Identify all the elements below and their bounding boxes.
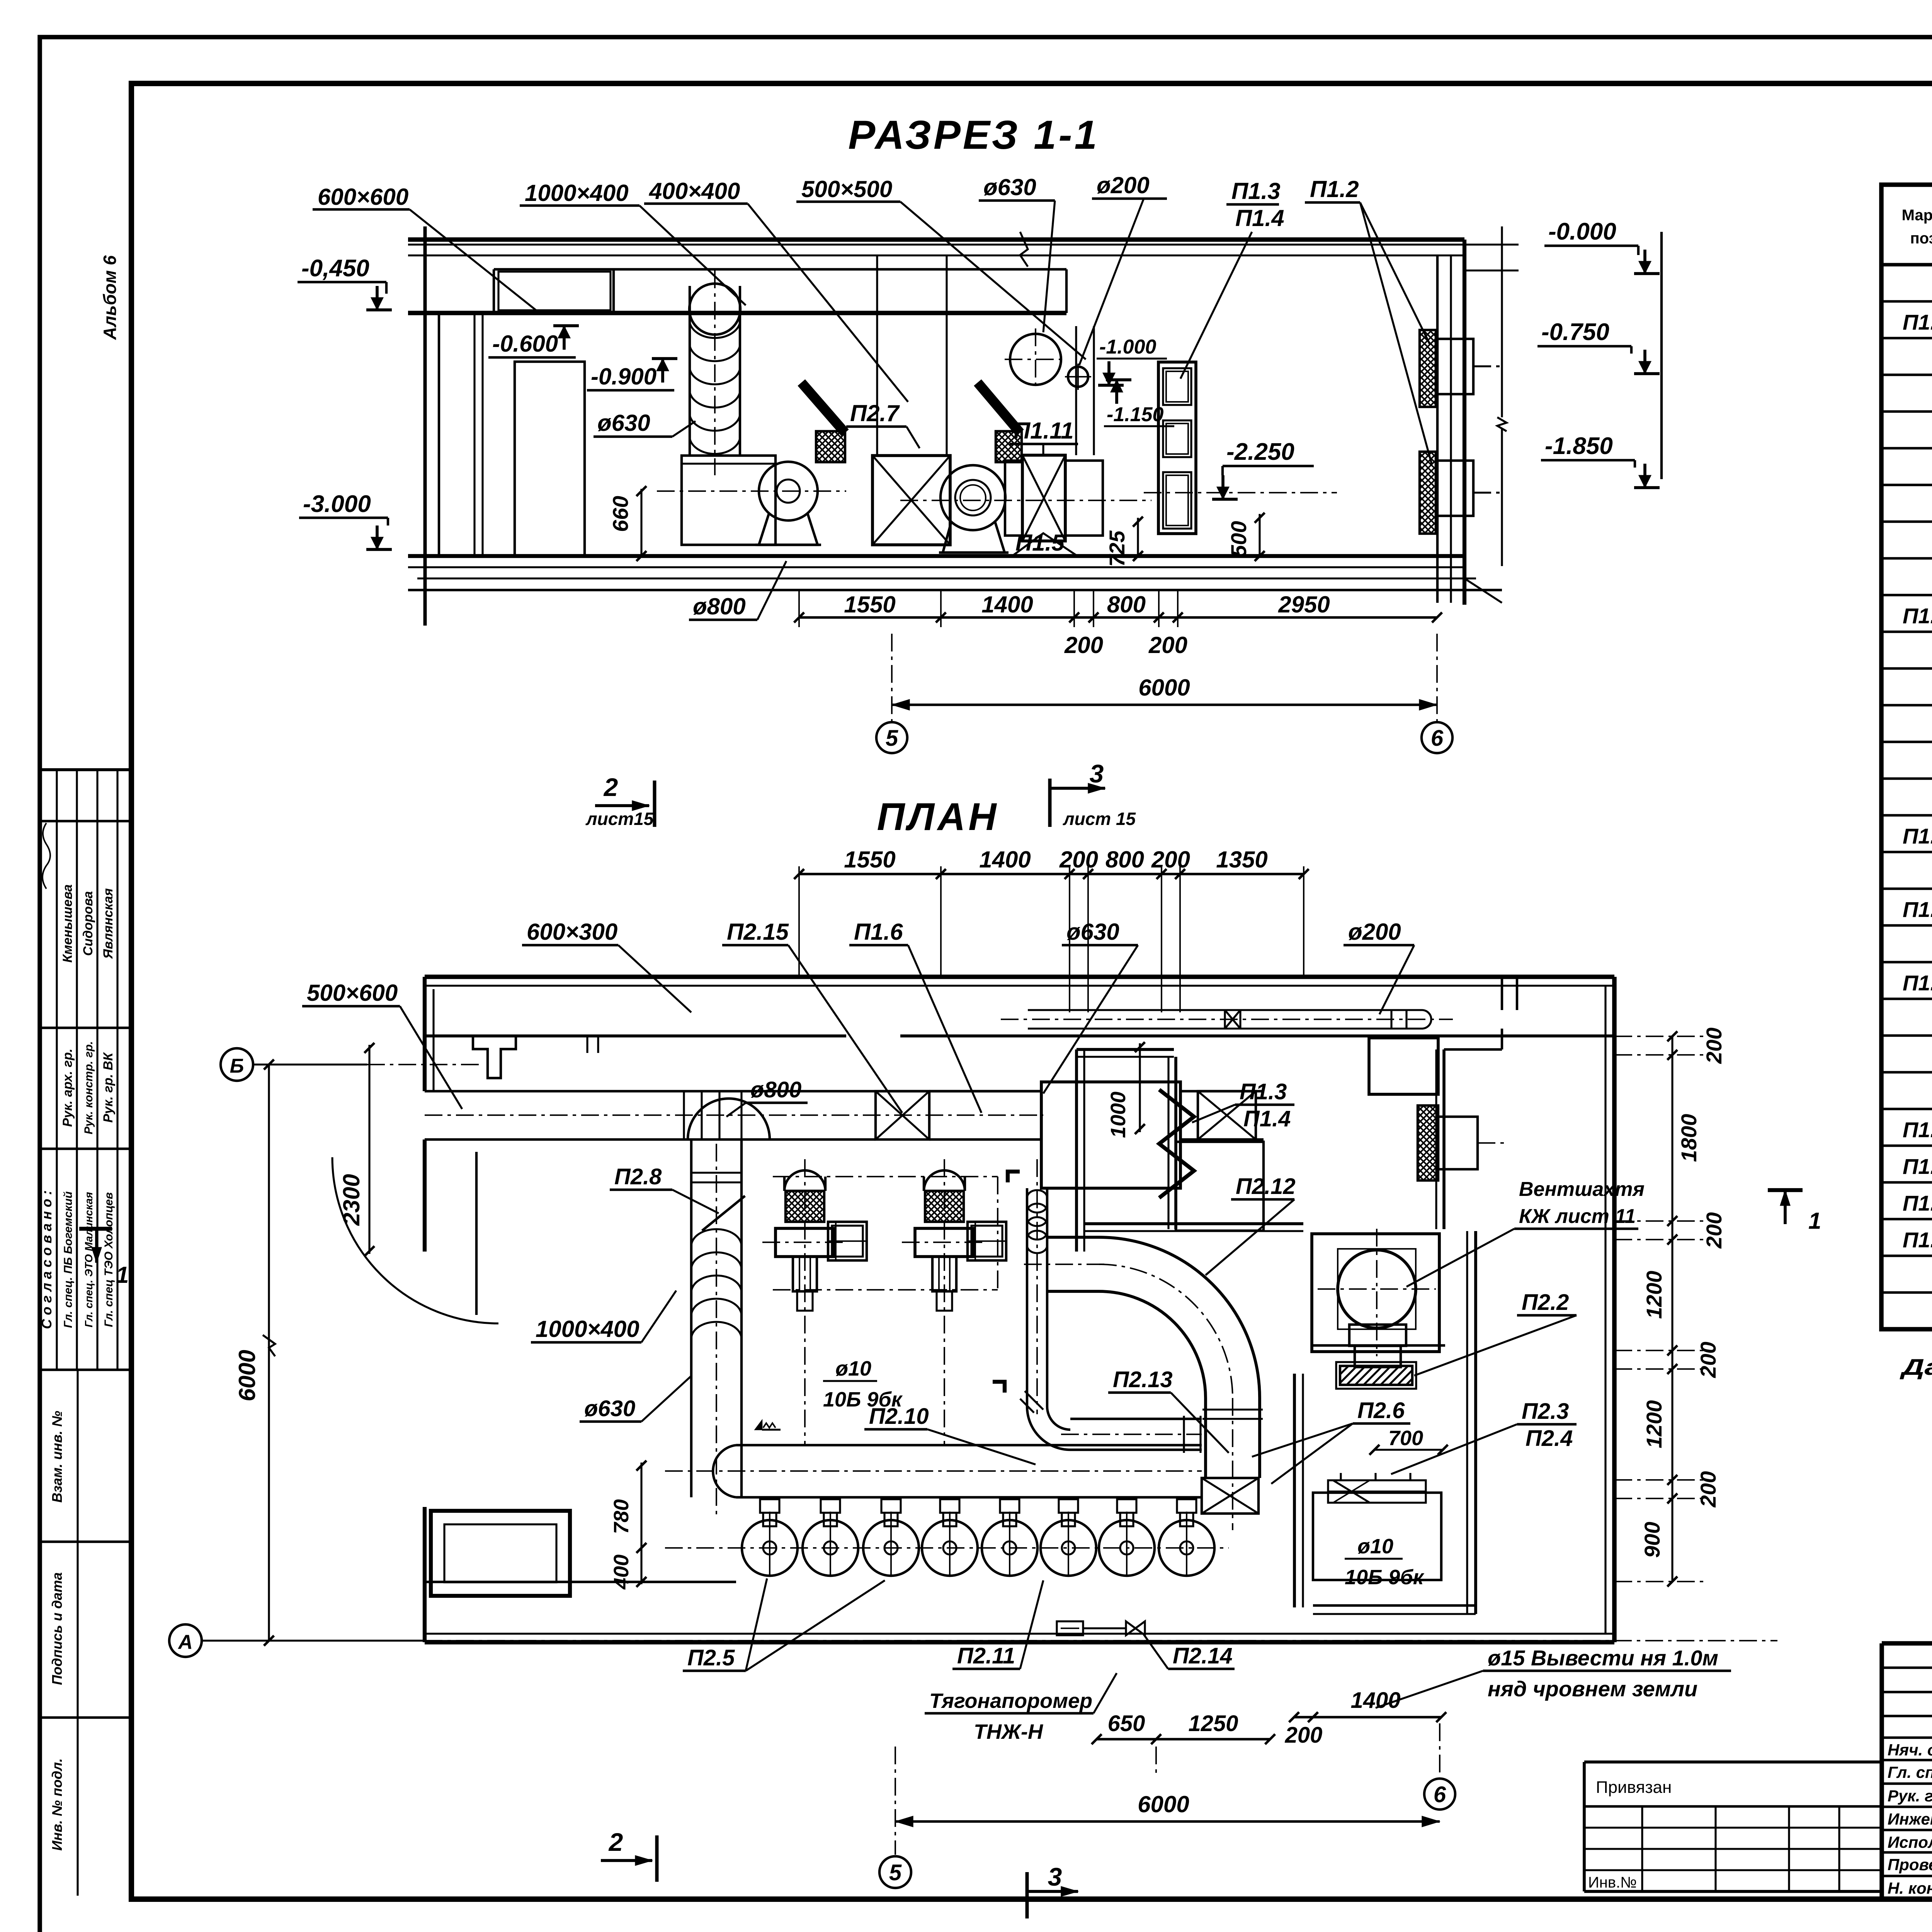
svg-text:800: 800 [1105,847,1144,872]
svg-text:Проверил: Проверил [1888,1855,1932,1874]
svg-text:-0.600: -0.600 [492,331,558,357]
svg-text:П1.7: П1.7 [1903,1154,1932,1179]
svg-text:Рук. констр. гр.: Рук. констр. гр. [82,1041,95,1134]
svg-text:П2.4: П2.4 [1526,1426,1573,1451]
svg-text:1350: 1350 [1216,847,1267,872]
svg-text:5: 5 [889,1860,902,1885]
svg-text:ø200: ø200 [1348,919,1401,945]
svg-text:П1.3: П1.3 [1240,1079,1287,1104]
svg-text:ø630: ø630 [1066,919,1119,945]
svg-text:10Б 9бк: 10Б 9бк [1345,1566,1425,1589]
svg-text:С о г л а с о в а н о :: С о г л а с о в а н о : [39,1190,54,1329]
svg-text:1400: 1400 [979,847,1031,872]
svg-text:1: 1 [116,1262,129,1288]
svg-text:500×600: 500×600 [307,980,398,1006]
svg-text:П1.4: П1.4 [1235,205,1284,231]
svg-text:Няч. отд.: Няч. отд. [1888,1741,1932,1759]
svg-text:Вентшахтя: Вентшахтя [1519,1178,1645,1201]
svg-text:700: 700 [1388,1427,1423,1450]
svg-text:-1.150: -1.150 [1107,403,1164,426]
svg-text:П2.2: П2.2 [1522,1290,1569,1315]
svg-text:ТНЖ-Н: ТНЖ-Н [974,1720,1043,1743]
svg-text:П1.4: П1.4 [1243,1106,1291,1131]
svg-text:400: 400 [610,1554,633,1590]
svg-text:Рук. гр. ВК: Рук. гр. ВК [101,1052,116,1122]
svg-text:Рук. гр.: Рук. гр. [1888,1787,1932,1805]
svg-text:ПЛАН: ПЛАН [877,795,999,838]
svg-text:ø630: ø630 [584,1396,635,1421]
svg-text:Привязан: Привязан [1596,1778,1672,1797]
svg-text:П1.5: П1.5 [1903,971,1932,995]
svg-text:500: 500 [1226,521,1251,557]
svg-text:П1.4: П1.4 [1903,897,1932,922]
svg-text:Б: Б [230,1055,244,1077]
svg-text:П1.8: П1.8 [1903,1191,1932,1215]
svg-text:200: 200 [1059,847,1098,872]
svg-text:6000: 6000 [1138,1791,1189,1817]
svg-text:600×300: 600×300 [527,919,617,945]
svg-text:П2.11: П2.11 [957,1643,1015,1668]
svg-text:Взам. инв. №: Взам. инв. № [49,1411,65,1503]
svg-text:П1.11: П1.11 [1014,418,1073,444]
svg-text:ø800: ø800 [693,594,746,619]
svg-text:200: 200 [1702,1212,1726,1248]
svg-text:П1.2: П1.2 [1310,176,1359,202]
svg-text:П1.9: П1.9 [1903,1228,1932,1252]
svg-text:ø10: ø10 [1357,1535,1393,1558]
svg-text:А: А [177,1631,193,1653]
svg-text:Сидорова: Сидорова [81,891,95,956]
svg-text:1000×400: 1000×400 [536,1316,639,1342]
svg-text:1000: 1000 [1107,1092,1130,1138]
svg-text:1: 1 [1808,1208,1821,1234]
svg-text:1250: 1250 [1188,1711,1238,1736]
svg-text:ø630: ø630 [983,174,1036,200]
svg-text:-1.000: -1.000 [1099,336,1156,358]
svg-text:Гл. спец ТЭО Холопцев: Гл. спец ТЭО Холопцев [102,1192,115,1327]
svg-text:2: 2 [603,773,618,801]
svg-text:600×600: 600×600 [318,184,408,210]
svg-text:Данный лист читать совместн: Данный лист читать совместно с листом 15… [1899,1355,1932,1380]
svg-text:-0.900: -0.900 [591,364,656,389]
svg-text:няд чровнем земли: няд чровнем земли [1488,1677,1697,1701]
svg-text:Инв. № подл.: Инв. № подл. [49,1758,65,1850]
svg-text:5: 5 [886,726,898,751]
svg-text:Кменышева: Кменышева [60,884,75,963]
svg-text:2: 2 [608,1828,623,1856]
svg-text:200: 200 [1148,632,1187,658]
svg-text:-1.850: -1.850 [1545,433,1613,459]
svg-text:-2.250: -2.250 [1226,439,1294,465]
svg-text:Инв.№: Инв.№ [1588,1874,1637,1891]
svg-text:П1.6: П1.6 [1903,1117,1932,1142]
svg-text:800: 800 [1107,592,1146,617]
svg-text:6000: 6000 [234,1350,260,1401]
svg-text:Тягонапоромер: Тягонапоромер [929,1689,1092,1713]
svg-text:780: 780 [610,1499,633,1534]
svg-text:1800: 1800 [1677,1114,1701,1162]
svg-text:200: 200 [1285,1723,1323,1748]
svg-text:660: 660 [608,496,633,532]
svg-text:П2.8: П2.8 [614,1164,662,1189]
svg-text:Н. контр.: Н. контр. [1888,1879,1932,1897]
svg-text:лист 15: лист 15 [1063,809,1136,829]
svg-text:-3.000: -3.000 [303,491,371,517]
svg-text:ø630: ø630 [597,410,650,436]
svg-text:П1.6: П1.6 [854,919,903,945]
svg-text:П1.1: П1.1 [1903,310,1932,334]
svg-text:2950: 2950 [1278,592,1330,617]
svg-text:Являнская: Являнская [101,888,116,959]
svg-text:Гл. спец. ЭТО Малинская: Гл. спец. ЭТО Малинская [83,1192,95,1328]
svg-text:лист15: лист15 [585,809,654,829]
svg-text:900: 900 [1640,1522,1664,1558]
svg-text:3: 3 [1048,1862,1062,1891]
svg-text:П2.10: П2.10 [869,1404,929,1429]
svg-text:3: 3 [1090,759,1104,788]
svg-text:П1.3: П1.3 [1231,178,1281,204]
svg-text:-0.750: -0.750 [1541,319,1609,345]
svg-text:П2.12: П2.12 [1236,1174,1296,1199]
svg-text:1550: 1550 [844,592,895,617]
svg-text:РАЗРЕЗ 1-1: РАЗРЕЗ 1-1 [848,112,1099,158]
svg-text:Марка: Марка [1902,207,1932,224]
svg-text:Альбом 6: Альбом 6 [100,255,120,340]
svg-text:1200: 1200 [1642,1400,1666,1449]
svg-text:200: 200 [1151,847,1190,872]
svg-text:поз.: поз. [1910,230,1932,247]
svg-text:6: 6 [1434,1782,1446,1807]
svg-text:Гл. спец.: Гл. спец. [1888,1763,1932,1781]
svg-text:ø200: ø200 [1097,172,1150,198]
svg-text:200: 200 [1696,1342,1720,1378]
svg-text:6: 6 [1431,726,1444,751]
svg-text:Подпись и дата: Подпись и дата [49,1572,65,1685]
svg-text:П1.2: П1.2 [1903,604,1932,628]
svg-text:500×500: 500×500 [801,176,892,202]
svg-text:200: 200 [1064,632,1103,658]
svg-text:-0.000: -0.000 [1548,218,1616,245]
svg-text:П2.5: П2.5 [687,1645,735,1670]
svg-text:200: 200 [1696,1471,1720,1507]
svg-text:Гл. спец. ПБ Богемский: Гл. спец. ПБ Богемский [62,1191,75,1328]
svg-text:1000×400: 1000×400 [525,180,629,206]
svg-text:П2.15: П2.15 [727,919,789,945]
svg-text:П2.6: П2.6 [1357,1398,1405,1423]
svg-text:1400: 1400 [1350,1688,1400,1713]
svg-text:6000: 6000 [1138,675,1190,701]
svg-text:П2.7: П2.7 [850,400,900,426]
svg-text:П1.3: П1.3 [1903,824,1932,848]
svg-text:-0,450: -0,450 [301,255,369,282]
svg-text:2300: 2300 [338,1174,364,1226]
svg-text:650: 650 [1108,1711,1145,1736]
svg-text:П2.14: П2.14 [1173,1643,1233,1668]
svg-text:ø15 Вывести ня 1.0м: ø15 Вывести ня 1.0м [1488,1646,1718,1670]
svg-text:Рук. арх. гр.: Рук. арх. гр. [60,1049,75,1127]
svg-text:П2.3: П2.3 [1522,1399,1569,1424]
svg-text:725: 725 [1105,530,1129,566]
svg-text:Инженер: Инженер [1888,1810,1932,1828]
svg-text:400×400: 400×400 [649,178,740,204]
svg-text:П2.13: П2.13 [1113,1367,1173,1392]
svg-text:КЖ лист 11: КЖ лист 11 [1519,1205,1636,1228]
svg-text:1200: 1200 [1642,1271,1666,1319]
svg-text:ø10: ø10 [835,1357,871,1380]
svg-text:200: 200 [1702,1027,1726,1064]
svg-text:ø800: ø800 [750,1077,801,1102]
svg-text:1400: 1400 [981,592,1033,617]
svg-text:1550: 1550 [844,847,895,872]
svg-text:Исполнил: Исполнил [1888,1833,1932,1851]
